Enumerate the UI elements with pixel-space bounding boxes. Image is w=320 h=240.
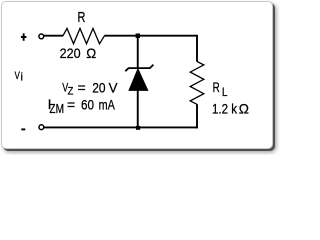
svg-text:L: L [222, 85, 228, 99]
svg-text:i: i [21, 71, 23, 83]
zener diode anode triangle [129, 69, 148, 91]
wire: top rail right segment (R to corner) [104, 35, 197, 37]
svg-text:Ω: Ω [239, 100, 249, 116]
wire: right vertical lower (RL to bottom corner) [196, 104, 198, 128]
wire: bottom rail [44, 126, 198, 128]
input terminal bottom (open circle) [39, 125, 44, 130]
svg-text:R: R [213, 79, 220, 95]
wire: top rail left segment [44, 35, 63, 37]
wire: right vertical upper (corner to RL top) [196, 35, 198, 62]
input terminal top (open circle) [39, 34, 44, 39]
svg-text:Ω: Ω [86, 45, 96, 61]
zener spec line VZ = 20 V [62, 80, 118, 98]
svg-text:=: = [67, 96, 75, 112]
node junction dot at zener top [136, 34, 140, 38]
zener diode cathode bar [125, 65, 153, 72]
plus polarity sign [21, 33, 27, 40]
wire: zener bottom lead [137, 90, 139, 128]
svg-text:220: 220 [60, 45, 81, 61]
label Vi [15, 70, 23, 84]
svg-text:=: = [78, 80, 86, 96]
zener spec line IZM = 60 mA [48, 96, 116, 116]
wire: zener top lead [137, 36, 139, 68]
resistor RL zigzag [190, 62, 204, 105]
svg-text:ZM: ZM [49, 102, 64, 116]
svg-text:60: 60 [81, 96, 94, 112]
value 220 ohm [60, 45, 97, 61]
svg-text:20: 20 [92, 80, 105, 96]
svg-text:V: V [109, 80, 119, 96]
node junction dot at zener bottom [136, 126, 140, 130]
svg-text:1.2 k: 1.2 k [212, 100, 238, 116]
minus polarity sign [21, 128, 25, 130]
value 1.2 kohm [212, 100, 249, 116]
svg-text:mA: mA [99, 96, 116, 112]
label RL [213, 79, 228, 99]
resistor R zigzag [63, 28, 105, 43]
svg-text:R: R [78, 10, 86, 26]
